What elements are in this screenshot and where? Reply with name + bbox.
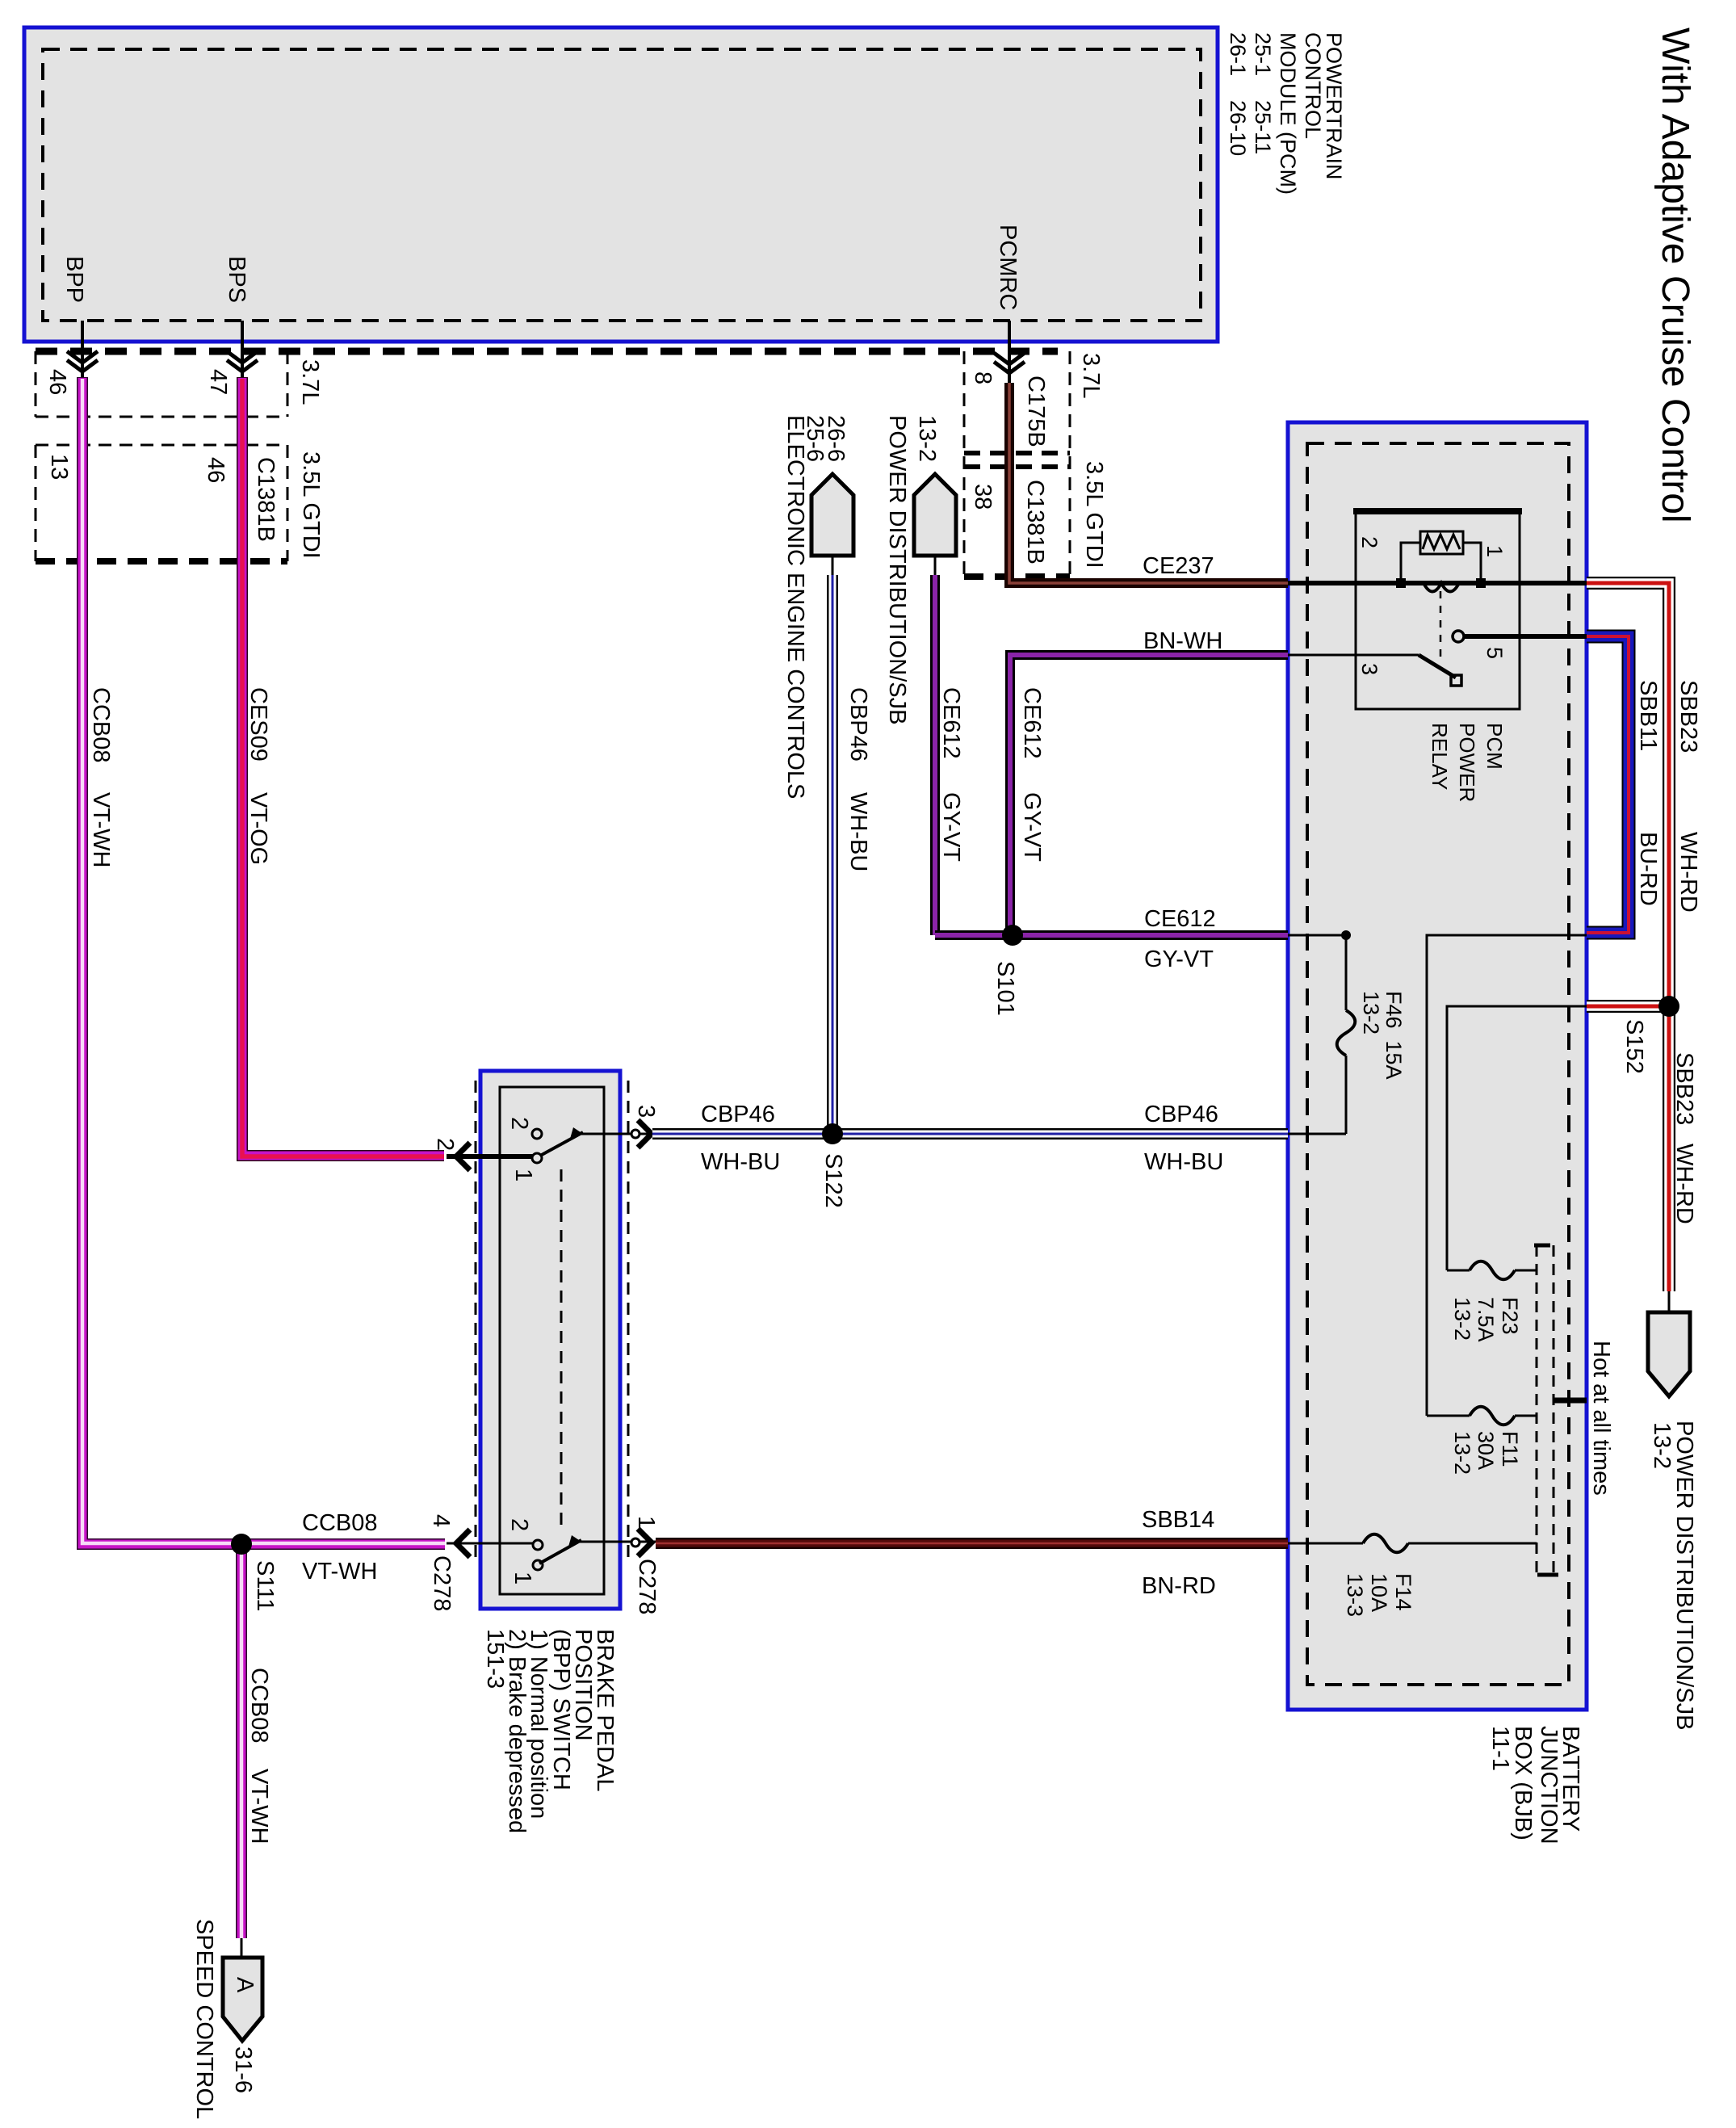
svg-text:3.5L GTDI: 3.5L GTDI [1081,461,1107,569]
off-page connector arrow POWER DISTRIBUTION/SJB 13-2 [884,415,956,724]
svg-text:CCB08: CCB08 [246,1668,272,1744]
PCM title label POWERTRAIN CONTROL MODULE (PCM) [1226,32,1346,195]
svg-text:WH-RD: WH-RD [1675,832,1701,913]
svg-text:10A: 10A [1367,1573,1391,1612]
relay name PCM POWER RELAY [1428,723,1507,802]
svg-text:A: A [232,1977,258,1993]
svg-text:2: 2 [1357,536,1382,548]
wire CCB08 VT-WH from S111 to speed control [236,1545,247,1938]
svg-text:1: 1 [1482,545,1507,557]
PCM pin BPS [224,256,258,377]
svg-text:WH-BU: WH-BU [1144,1149,1223,1175]
svg-text:GY-VT: GY-VT [1019,792,1045,862]
svg-text:S152: S152 [1621,1019,1647,1074]
battery junction box BJB [1288,422,1587,1710]
fuse F14 10A line [1288,1534,1537,1553]
svg-text:CCB08: CCB08 [302,1510,378,1536]
PCM power relay box [1353,511,1522,709]
relay junction dots pins 2 and 1 [1396,578,1406,588]
relay contact pin 3 and armature [1288,654,1419,657]
connector box 3.7L C175B (pin 8) [964,351,1070,577]
svg-text:38: 38 [970,484,996,510]
svg-text:30A: 30A [1474,1431,1498,1470]
svg-text:C278: C278 [429,1555,455,1611]
wire CE612 GY-VT from S101 to BJB F46 [935,930,1288,940]
wire CES09 VT-OG from PCM BPS to C278 [242,377,444,1156]
svg-text:46: 46 [203,457,229,483]
svg-text:SBB11: SBB11 [1635,680,1661,751]
svg-text:BN-WH: BN-WH [1143,628,1222,654]
svg-text:VT-OG: VT-OG [245,792,271,865]
switch name BRAKE PEDAL POSITION (BPP) SWITCH [482,1629,618,1833]
svg-text:CE612: CE612 [1144,906,1216,932]
wire SBB14 BN-RD from BPP switch pin 1 to BJB F14 [656,1538,1288,1549]
svg-text:25-1 25-11: 25-1 25-11 [1251,32,1275,154]
BPP switch contacts (bottom) [447,1535,656,1570]
hot-at-all-times bus dashed [1534,1245,1558,1575]
splice S101 [1002,925,1023,946]
svg-text:2: 2 [432,1138,458,1151]
wire BN-WH from S101 up to BJB relay pin 3 [1010,655,1288,935]
BPS switch connector chevron right pin 3 [631,1130,639,1138]
svg-text:C175B: C175B [1023,376,1049,447]
svg-text:13-2: 13-2 [1450,1431,1474,1475]
splice S111 [231,1534,252,1555]
svg-text:GY-VT: GY-VT [938,792,964,862]
junction dot at F46 top [1341,930,1351,940]
svg-text:CE237: CE237 [1143,553,1214,579]
svg-text:151-3: 151-3 [482,1629,508,1689]
svg-text:RELAY: RELAY [1428,723,1452,790]
BPP switch connector chevron left pin 4 [456,1530,470,1557]
svg-text:13-2: 13-2 [1649,1422,1675,1469]
SBB11 internal feed line to fuse F11 [1427,935,1587,1425]
svg-text:VT-WH: VT-WH [246,1769,272,1844]
svg-text:13: 13 [46,454,72,480]
svg-text:MODULE (PCM): MODULE (PCM) [1276,32,1300,195]
svg-text:3.7L: 3.7L [297,359,323,405]
svg-text:F14: F14 [1391,1573,1415,1611]
svg-text:SBB23: SBB23 [1671,1052,1697,1125]
svg-text:2: 2 [506,1117,532,1130]
svg-text:VT-WH: VT-WH [88,792,114,867]
svg-text:C1381B: C1381B [1022,480,1048,565]
svg-text:3.5L GTDI: 3.5L GTDI [298,451,324,559]
svg-text:CE612: CE612 [1019,687,1045,759]
relay through line pins 2-1 [1288,581,1587,586]
svg-text:BPS: BPS [224,256,249,303]
svg-text:F46 15A: F46 15A [1382,991,1406,1080]
svg-text:26-6: 26-6 [823,415,849,462]
S152 branch internal line to fuse F23 [1447,1006,1587,1279]
svg-text:POWER DISTRIBUTION/SJB: POWER DISTRIBUTION/SJB [884,415,910,724]
svg-text:F23: F23 [1498,1297,1522,1335]
PCM module box [24,27,1218,342]
svg-text:3: 3 [633,1105,659,1118]
splice S152 [1658,996,1679,1017]
svg-text:C1381B: C1381B [253,457,279,542]
svg-text:CONTROL: CONTROL [1301,32,1325,139]
svg-text:2: 2 [506,1518,532,1531]
svg-text:CE612: CE612 [938,687,964,759]
PCM pin BPP [61,256,98,377]
svg-text:BN-RD: BN-RD [1142,1573,1216,1599]
svg-text:Hot at all times: Hot at all times [1588,1341,1614,1496]
BJB name label [1487,1726,1583,1845]
svg-text:CBP46: CBP46 [845,687,871,762]
fuse F46 15A [1288,935,1355,1134]
wire CBP46 WH-BU from engine controls arrow to S122 [827,575,838,1134]
relay coil [1424,583,1459,592]
wire SBB23 WH-RD branch from S152 into BJB F23 [1587,1000,1669,1013]
connector box 3.5L GTDI C1381B (pins 13/46) [36,445,287,561]
svg-text:PCM: PCM [1482,723,1507,770]
svg-text:1: 1 [510,1169,536,1182]
svg-text:VT-WH: VT-WH [302,1559,377,1584]
svg-text:WH-BU: WH-BU [701,1149,780,1175]
svg-text:5: 5 [1482,647,1507,659]
svg-text:3: 3 [1357,663,1382,675]
svg-text:PCMRC: PCMRC [995,225,1021,310]
svg-text:1: 1 [633,1516,659,1529]
connector C278 dashed boundaries [475,1081,477,1560]
svg-text:31-6: 31-6 [230,2046,256,2093]
svg-text:8: 8 [970,371,996,384]
splice S122 [822,1123,843,1144]
PCM pin PCMRC [994,225,1025,383]
hot at all times tap [1554,1398,1587,1404]
svg-text:GY-VT: GY-VT [1144,946,1214,972]
svg-text:3.7L: 3.7L [1078,353,1104,398]
wire CBP46 WH-BU from BPP switch pin 3 through S122 to BJB [652,1128,1288,1140]
svg-text:ELECTRONIC ENGINE CONTROLS: ELECTRONIC ENGINE CONTROLS [782,415,808,799]
svg-text:CBP46: CBP46 [701,1102,775,1127]
off-page connector arrow SPEED CONTROL A 31-6 [191,1919,262,2119]
svg-text:13-3: 13-3 [1343,1573,1367,1617]
svg-text:F11: F11 [1498,1431,1522,1467]
svg-text:BU-RD: BU-RD [1635,832,1661,906]
svg-text:C278: C278 [634,1559,660,1614]
wire CE612 GY-VT from power distribution arrow to S101 [930,575,940,935]
svg-text:11-1: 11-1 [1487,1726,1513,1771]
svg-text:WH-RD: WH-RD [1671,1144,1697,1224]
svg-text:With Adaptive Cruise Control: With Adaptive Cruise Control [1654,27,1696,523]
svg-text:13-2: 13-2 [1450,1297,1474,1341]
connector box 3.7L (pins 46/47) [36,351,287,417]
svg-text:26-1 26-10: 26-1 26-10 [1226,32,1250,156]
brake pedal position switch box [480,1071,620,1609]
wire SBB11 BU-RD from relay pin 5 to BJB F11 feed [1587,636,1629,933]
svg-text:BPP: BPP [61,256,87,303]
heavy dashed harness line under PCM [36,348,1058,355]
svg-text:CES09: CES09 [245,687,271,762]
svg-text:WH-BU: WH-BU [845,792,871,871]
svg-text:S111: S111 [252,1560,278,1611]
relay contact pin 5 [1453,631,1464,642]
svg-text:47: 47 [205,369,231,395]
BPP switch connector chevron right pin 1 [631,1538,639,1547]
svg-text:SBB14: SBB14 [1142,1507,1214,1533]
svg-text:S122: S122 [820,1153,846,1208]
svg-text:SBB23: SBB23 [1675,680,1701,753]
svg-text:13-2: 13-2 [914,415,940,462]
BPS switch connector chevron left pin 2 [456,1143,470,1170]
svg-text:13-2: 13-2 [1359,991,1383,1035]
wire CCB08 VT-WH from PCM BPP to S111 to C278 [82,377,445,1544]
svg-text:7.5A: 7.5A [1474,1297,1498,1342]
off-page connector arrow ELECTRONIC ENGINE CONTROLS [782,415,853,799]
svg-text:CCB08: CCB08 [88,687,114,763]
wire CE237 from PCM PCMRC pin 8 to BJB relay [1009,383,1288,583]
switch gang link dashed [560,1169,563,1530]
svg-text:CBP46: CBP46 [1144,1102,1218,1127]
svg-text:POWER DISTRIBUTION/SJB: POWER DISTRIBUTION/SJB [1671,1421,1697,1730]
svg-text:POWER: POWER [1455,723,1479,802]
off-page connector arrow POWER DISTRIBUTION/SJB 13-2 bottom right [1648,1291,1697,1730]
BPS switch contacts (top) [447,1127,656,1163]
svg-text:S101: S101 [992,961,1018,1016]
relay armature link dashed [1440,591,1442,659]
wire SBB23 WH-RD from relay pin 1 down to power distribution arrow [1587,583,1669,1291]
svg-text:JUNCTION: JUNCTION [1536,1726,1562,1845]
relay suppression resistor [1401,531,1481,584]
svg-text:46: 46 [44,369,70,395]
svg-text:SPEED CONTROL: SPEED CONTROL [191,1919,217,2119]
svg-text:4: 4 [428,1514,454,1527]
svg-text:1: 1 [509,1572,535,1584]
